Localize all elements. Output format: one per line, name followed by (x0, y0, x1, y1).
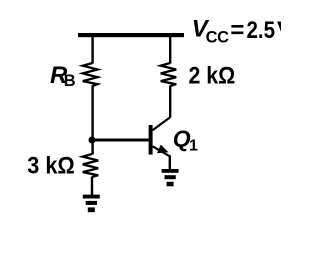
svg-text:2.5: 2.5 (247, 17, 276, 44)
svg-text:1: 1 (189, 137, 198, 154)
svg-text:CC: CC (206, 28, 230, 46)
svg-text:B: B (64, 72, 76, 90)
svg-text:=: = (230, 17, 244, 44)
svg-text:V: V (277, 17, 281, 44)
svg-text:2 kΩ: 2 kΩ (189, 63, 236, 90)
svg-text:3 kΩ: 3 kΩ (27, 153, 75, 180)
